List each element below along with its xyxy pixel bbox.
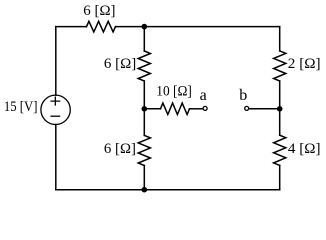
svg-text:4 [Ω]: 4 [Ω] — [288, 141, 321, 157]
svg-text:2 [Ω]: 2 [Ω] — [288, 56, 321, 72]
resistor R3 6 ohm (middle lower vertical) — [138, 135, 150, 165]
resistor R5 4 ohm (right lower vertical) — [274, 135, 286, 165]
junction node: top rail / middle branch — [142, 24, 148, 30]
voltage source V1 15V — [41, 95, 70, 124]
wire: middle branch between R2 and node — [143, 81, 145, 135]
wire: bottom rail — [56, 189, 280, 191]
svg-text:6 [Ω]: 6 [Ω] — [104, 141, 136, 157]
wire: right branch bottom lead — [279, 165, 281, 189]
svg-text:10 [Ω]: 10 [Ω] — [156, 83, 192, 99]
resistor R1 6 ohm (top horizontal) — [87, 21, 116, 32]
wire: 10 ohm branch left lead — [144, 108, 160, 110]
resistor R2 6 ohm (middle upper vertical) — [138, 51, 150, 81]
terminal a (open circle) — [203, 106, 207, 110]
wire: left branch lower (source to bottom rail) — [55, 125, 57, 190]
svg-text:15 [V]: 15 [V] — [4, 99, 38, 115]
resistor R6 10 ohm (horizontal to terminal a) — [161, 103, 190, 114]
resistor R4 2 ohm (right upper vertical) — [274, 51, 286, 81]
svg-text:b: b — [239, 87, 247, 104]
wire: right branch between R4 and node — [279, 81, 281, 135]
svg-text:6 [Ω]: 6 [Ω] — [104, 56, 136, 72]
wire: top rail right segment — [116, 26, 280, 28]
wire: left branch upper (source to top rail) — [55, 27, 57, 96]
terminal b (open circle) — [245, 106, 249, 110]
wire: middle branch bottom lead — [143, 166, 145, 190]
wire: top rail left segment — [56, 26, 87, 28]
wire: right branch top lead — [279, 27, 281, 51]
junction node: middle branch / 10 ohm branch — [142, 106, 148, 112]
svg-text:6 [Ω]: 6 [Ω] — [83, 3, 115, 19]
junction node: bottom rail / middle branch — [142, 187, 148, 193]
junction node: right branch / terminal b wire — [277, 106, 283, 112]
wire: lead from terminal b to right branch — [249, 108, 280, 110]
wire: middle branch top lead — [143, 27, 145, 51]
svg-text:a: a — [200, 87, 207, 104]
wire: lead from R6 to terminal a — [190, 108, 203, 110]
